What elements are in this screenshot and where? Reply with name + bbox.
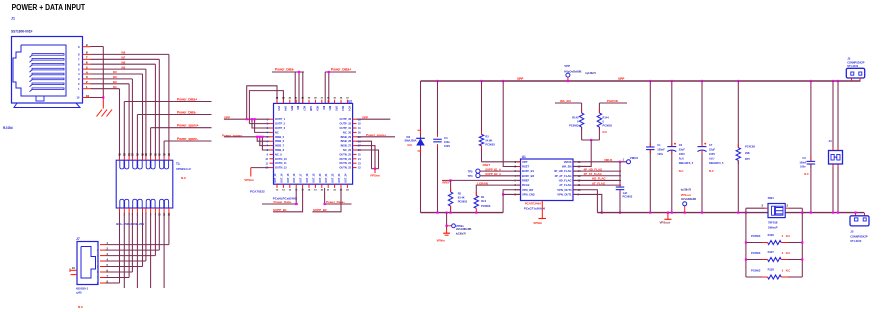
op-amp U1 part numbers — [524, 201, 546, 210]
svg-text:INSB_29: INSB_29 — [341, 135, 352, 139]
svg-text:OUT_15: OUT_15 — [287, 173, 290, 183]
wire WA_EN — [555, 102, 582, 104]
svg-text:100V: 100V — [444, 144, 450, 148]
switch SW1 body — [768, 204, 785, 218]
svg-text:NC_9: NC_9 — [275, 152, 282, 156]
capacitor C1 labels — [657, 143, 665, 156]
svg-text:NC3: NC3 — [341, 106, 344, 111]
svg-text:CONNPSDX2P: CONNPSDX2P — [850, 236, 868, 239]
wire J1 pin6 to T1 — [91, 64, 156, 156]
svg-text:NC_26: NC_26 — [343, 148, 352, 152]
svg-text:10: 10 — [76, 96, 80, 100]
wire net Power_Data- from T1 tap — [137, 115, 211, 157]
wire TP3 to U1 pin4 — [480, 175, 521, 177]
svg-text:PC4C08: PC4C08 — [745, 145, 755, 149]
net label PGOOD — [607, 99, 619, 103]
port label VPStm left — [244, 178, 254, 182]
svg-text:22uF: 22uF — [679, 147, 685, 151]
svg-text:POWER + DATA INPUT: POWER + DATA INPUT — [12, 3, 86, 12]
wire VPSout bottom rail — [597, 212, 864, 214]
port VPSout circle labels — [681, 190, 697, 201]
title POWER + DATA INPUT — [12, 3, 86, 12]
svg-text:PC0603: PC0603 — [485, 142, 495, 146]
svg-text:10: 10 — [86, 94, 90, 98]
connector J5 labels — [850, 229, 868, 243]
net label VPP at U2 left — [224, 116, 230, 120]
resistor R126 labels — [751, 233, 790, 238]
svg-text:IN0: IN0 — [322, 106, 325, 110]
svg-text:IN5: IN5 — [122, 66, 126, 69]
svg-text:100V: 100V — [709, 152, 715, 156]
wire bracket join U2 right — [372, 168, 379, 173]
svg-text:PC0603: PC0603 — [481, 204, 491, 208]
svg-text:VMUX: VMUX — [604, 158, 612, 162]
svg-text:VPNin: VPNin — [437, 239, 446, 243]
svg-text:cj45: cj45 — [76, 291, 82, 295]
svg-text:OUT_20: OUT_20 — [319, 173, 322, 183]
wire comb U2 pin3 — [251, 118, 270, 128]
wire J1 pin3 to T1 — [91, 79, 133, 157]
net label VMUX — [604, 158, 612, 162]
svg-text:100nF: 100nF — [799, 161, 807, 164]
connector J1 RJ45 jack body — [12, 37, 83, 108]
svg-text:N.C: N.C — [786, 234, 791, 238]
op-amp U1 refdes — [522, 155, 526, 159]
svg-text:N.C: N.C — [603, 130, 608, 134]
port VPP top center — [566, 73, 570, 82]
port VNEG below U1 — [539, 201, 547, 219]
wire WA_EN to U1 pin15 — [573, 140, 591, 166]
svg-text:IN7: IN7 — [122, 57, 126, 60]
svg-text:29K: 29K — [745, 151, 750, 155]
junction rail C3 bottom — [810, 212, 812, 214]
svg-text:PC0603: PC0603 — [751, 234, 761, 238]
svg-text:OUTN_22: OUTN_22 — [339, 166, 351, 170]
wire net Power_Data+ from T1 tap — [124, 102, 211, 157]
svg-text:VPNin: VPNin — [456, 224, 464, 228]
svg-text:OUT_16: OUT_16 — [293, 173, 296, 183]
svg-text:VPN_INT: VPN_INT — [522, 188, 534, 192]
junction rail C7 bottom — [701, 212, 703, 214]
svg-text:OUTP_2: OUTP_2 — [275, 122, 286, 126]
resistor R144 — [597, 113, 601, 127]
op-amp U2 body PCA9685 driver — [274, 103, 353, 184]
svg-text:AT_FLAG: AT_FLAG — [592, 181, 606, 185]
resistor R128 — [768, 275, 782, 279]
transformer T1 refdes — [176, 162, 180, 166]
svg-text:R75: R75 — [745, 157, 750, 161]
resistor R1 labels — [481, 195, 491, 208]
svg-text:VPSout: VPSout — [681, 193, 691, 197]
svg-text:BP1: BP1 — [328, 106, 331, 111]
transformer T1 windings — [120, 160, 169, 208]
net label VPP U2 right — [362, 115, 368, 119]
svg-text:NC7: NC7 — [303, 106, 306, 111]
junction rail C1 bottom — [649, 212, 651, 214]
wire J1 pin7 to T1 — [91, 59, 160, 156]
svg-text:IN6: IN6 — [122, 61, 126, 64]
diode D3 labels — [405, 135, 417, 147]
connector J4 refdes — [828, 139, 832, 143]
svg-text:C3: C3 — [802, 156, 806, 160]
svg-text:WA_EN: WA_EN — [560, 99, 571, 103]
svg-text:OUTP_3: OUTP_3 — [275, 126, 286, 130]
net label 4P_HD_FLAG — [584, 167, 604, 171]
svg-text:PC0603: PC0603 — [751, 269, 761, 273]
svg-text:PC0603: PC0603 — [569, 123, 579, 127]
connector J3 body — [846, 68, 864, 78]
svg-text:1uF: 1uF — [623, 191, 628, 195]
svg-text:VPStm: VPStm — [370, 174, 380, 178]
wire net AT_FLAG — [573, 184, 621, 186]
svg-text:VPSout: VPSout — [660, 220, 670, 224]
test point TP2 — [468, 169, 480, 173]
port label VPNin below U1 — [533, 221, 542, 225]
svg-text:C4: C4 — [444, 136, 448, 140]
wire net Power_spare+ from T1 tap — [151, 128, 212, 157]
svg-text:IN3: IN3 — [113, 76, 117, 79]
wire U1 pin8 down — [503, 193, 520, 195]
transformer T1 pin stubs — [120, 157, 169, 213]
resistor R3 branch — [481, 81, 483, 162]
wire R3 to U1 pin1 — [482, 161, 521, 163]
capacitor C2 branch — [619, 162, 621, 213]
op-amp U2 top pins — [276, 97, 351, 112]
connector J7 pin 10 — [70, 267, 77, 274]
svg-text:PC0603: PC0603 — [603, 123, 613, 127]
svg-text:HVxGNDxDB: HVxGNDxDB — [456, 228, 472, 231]
svg-text:WA_EN: WA_EN — [562, 165, 572, 169]
svg-text:SUPP_B2_A: SUPP_B2_A — [485, 172, 501, 176]
svg-text:VPP: VPP — [517, 77, 524, 81]
svg-text:RJ45d: RJ45d — [3, 126, 13, 130]
port VPP label — [564, 64, 570, 68]
port VPP HV-GND note — [564, 70, 596, 75]
svg-text:Power_Data-: Power_Data- — [274, 200, 292, 204]
wire T1 to J7 pin6 — [106, 213, 133, 273]
junction VPNin circle tap — [446, 225, 448, 227]
wire J1 pin2 to T1 — [91, 84, 130, 157]
wire pin9 down to ground node — [91, 47, 104, 98]
port VPNin circle — [447, 224, 456, 228]
svg-text:SUPP_B2: SUPP_B2 — [313, 208, 327, 212]
junction rail VPNin port — [446, 212, 448, 214]
svg-text:N.C: N.C — [181, 176, 187, 180]
svg-text:ALU: ALU — [709, 156, 714, 160]
net label Power_Data+ at U2 top — [331, 68, 351, 72]
junction rail U1 feed — [502, 80, 504, 82]
svg-text:VPP: VPP — [522, 160, 528, 164]
op-amp U2 part number center — [273, 197, 298, 201]
svg-text:OUTN_23: OUTN_23 — [339, 161, 351, 165]
svg-text:ly138x70: ly138x70 — [456, 232, 467, 235]
junction rail R75 bottom — [737, 212, 739, 214]
svg-text:J1: J1 — [11, 17, 15, 21]
op-amp U1 left pins — [515, 160, 535, 197]
svg-text:ST1-0100: ST1-0100 — [847, 65, 859, 68]
wire net RREF to U1 pin5 — [442, 179, 521, 181]
resistor R2 branch — [450, 180, 452, 212]
resistor R144 branch — [598, 103, 600, 140]
connector J3 labels — [847, 56, 865, 68]
junction rail C2 — [619, 212, 621, 214]
net label RSET — [483, 163, 491, 167]
op-amp U2 refdes — [348, 99, 352, 103]
wire U1 pin7 down — [502, 190, 521, 213]
wire J1 pin4 to T1 — [91, 74, 143, 157]
svg-text:PCA7E249A: PCA7E249A — [525, 201, 542, 205]
svg-text:INSB_28: INSB_28 — [341, 139, 352, 143]
svg-text:VMUX: VMUX — [630, 156, 638, 160]
wire J1 pin8 to T1 — [91, 54, 169, 156]
svg-text:30.9: 30.9 — [481, 199, 487, 203]
svg-text:OUT_22: OUT_22 — [332, 173, 335, 183]
svg-text:VCC: VCC — [277, 106, 280, 111]
op-amp U2 left pins — [265, 117, 287, 170]
svg-text:T1: T1 — [176, 162, 180, 166]
svg-text:by138x70: by138x70 — [681, 190, 692, 192]
svg-text:Power_spare+: Power_spare+ — [177, 124, 199, 128]
svg-text:HD_FLAG: HD_FLAG — [592, 177, 606, 181]
svg-text:OUT_13: OUT_13 — [274, 173, 277, 183]
svg-text:R2: R2 — [458, 191, 462, 195]
svg-text:100nF: 100nF — [657, 147, 665, 151]
net label SUPP_B2_A — [485, 172, 501, 176]
wire comb U2 pin8 — [261, 136, 269, 150]
capacitor C3 labels — [799, 156, 809, 176]
svg-text:VP6294 LF: VP6294 LF — [176, 167, 191, 171]
svg-text:N.C: N.C — [786, 269, 791, 273]
transformer T1 value VP6294 LF — [176, 167, 191, 171]
svg-text:OUTP_32: OUTP_32 — [340, 122, 352, 126]
svg-text:R3: R3 — [485, 134, 489, 138]
net label Power_Data- at U2 top — [275, 68, 294, 72]
op-amp U2 right pins — [339, 117, 361, 170]
resistor R3 — [479, 134, 483, 145]
svg-text:IN2: IN2 — [113, 81, 117, 84]
svg-text:OUTN_25: OUTN_25 — [339, 152, 351, 156]
svg-text:BUFF_B1: BUFF_B1 — [522, 169, 535, 173]
svg-text:R143: R143 — [572, 115, 579, 119]
svg-text:VPN_OUT0: VPN_OUT0 — [557, 188, 572, 192]
capacitor C7 branch — [701, 81, 703, 213]
port VPNin circle labels — [456, 224, 472, 236]
wire R143 R144 join — [582, 139, 600, 141]
wire T1 center taps below — [124, 213, 164, 289]
junction rail ladder right — [801, 212, 803, 214]
wire VPNin port drop — [446, 213, 448, 234]
svg-text:IN1: IN1 — [113, 86, 117, 89]
svg-text:OUTN_11: OUTN_11 — [275, 161, 287, 165]
wire D3 branch — [420, 81, 422, 213]
wire bracket U2 pin26 — [357, 150, 379, 169]
wire bracket U2 pin28 — [357, 141, 372, 169]
svg-text:PC0603: PC0603 — [458, 200, 468, 204]
svg-text:N.C: N.C — [408, 143, 413, 147]
transformer T1 pin numbers — [118, 153, 171, 216]
wire T1 to J7 pin3 — [106, 213, 156, 256]
svg-text:C6: C6 — [679, 143, 683, 147]
junction U2 left loop1 — [246, 118, 248, 120]
connector J5 pins — [854, 212, 864, 216]
svg-text:DBH12F3_5: DBH12F3_5 — [679, 161, 694, 165]
wire J1 pin5 to T1 — [91, 69, 146, 156]
port VPSout circle — [683, 202, 687, 214]
transformer T1 body — [116, 160, 173, 208]
wire T1 to J7 pin1 — [106, 213, 169, 245]
svg-text:4P_HD_FLAG: 4P_HD_FLAG — [584, 167, 604, 171]
svg-text:N.C: N.C — [804, 172, 809, 176]
svg-text:SS71800-001F: SS71800-001F — [11, 30, 32, 34]
capacitor C4 — [433, 139, 442, 142]
svg-text:OUT_19: OUT_19 — [312, 173, 315, 183]
svg-text:NC_30: NC_30 — [343, 130, 352, 134]
svg-text:BEL-45Mx100B-20V: BEL-45Mx100B-20V — [116, 222, 144, 226]
wire net 4P_AT_FLAG — [573, 175, 621, 177]
junction rail J4 top — [832, 80, 839, 82]
net label RREF — [442, 181, 450, 185]
junction ladder row R126 — [745, 241, 804, 243]
svg-text:OP2: OP2 — [335, 106, 338, 111]
svg-text:HVxGNDx0B: HVxGNDx0B — [681, 198, 696, 201]
junction rail R3 — [480, 80, 482, 82]
svg-text:N.C: N.C — [786, 251, 791, 255]
resistor R144 labels — [603, 115, 613, 134]
junction rail C7 top — [701, 80, 703, 82]
port label VPStm right — [370, 174, 380, 178]
op-amp U1 right pins — [554, 160, 581, 197]
resistor R128 row — [746, 276, 802, 278]
svg-text:PC0603: PC0603 — [623, 195, 633, 199]
connector J1 refdes — [11, 17, 15, 21]
svg-text:VD9: VD9 — [315, 106, 318, 111]
wire SW1 left — [746, 208, 765, 212]
wire net Power_Data+ to U2 top — [325, 72, 356, 103]
connector J1 pins 9-1 — [78, 43, 91, 91]
wire VMUX from U1 pin16 — [573, 161, 627, 163]
connector J1 part number SS71800-001F — [11, 30, 32, 34]
wire T1 to J7 pin8 — [106, 213, 120, 284]
wire net SUPP_B2 — [312, 188, 341, 212]
svg-text:OUTN_24: OUTN_24 — [339, 157, 351, 161]
svg-text:VPStm: VPStm — [244, 178, 254, 182]
svg-text:by138x70: by138x70 — [586, 73, 597, 75]
switch SW1 labels — [768, 220, 778, 229]
net label AT_FLAG — [592, 181, 606, 185]
wire comb U2 pin4 — [254, 118, 270, 132]
junction rail C6 top — [671, 80, 673, 82]
transformer T1 N.C flag — [181, 176, 187, 180]
junction ladder row R127 — [745, 258, 804, 260]
net label SUPP_B2 — [313, 208, 327, 212]
wire net Power_spare- from T1 tap — [164, 141, 211, 157]
svg-text:U1: U1 — [522, 155, 526, 159]
svg-text:U2: U2 — [348, 99, 352, 103]
svg-text:4P_AT_FLAG: 4P_AT_FLAG — [555, 174, 572, 178]
svg-text:100v: 100v — [657, 152, 663, 156]
capacitor C2 — [616, 187, 625, 190]
svg-text:INSB_6: INSB_6 — [275, 139, 285, 143]
svg-text:N.C: N.C — [679, 169, 684, 173]
wire J4 feeds — [833, 81, 838, 213]
wire comb U2 pin7 — [259, 136, 270, 146]
junction rail C4 bottom — [436, 212, 438, 214]
svg-text:IN4: IN4 — [113, 71, 117, 74]
wire rail to U1 pin2 — [503, 81, 520, 167]
svg-text:R127: R127 — [768, 250, 775, 254]
svg-text:VPN_CNS: VPN_CNS — [522, 193, 535, 197]
wire net SUPP_B1 — [273, 188, 303, 212]
wire ladder right rail — [801, 213, 803, 277]
wire J1 pin1 to T1 — [91, 89, 120, 157]
svg-text:J3: J3 — [847, 56, 851, 60]
port label VPSout T-bar — [660, 220, 670, 224]
connector J7 N.C flag — [78, 305, 84, 309]
wire T1 to J7 pin4 — [106, 213, 146, 262]
port VPNin T-bar — [443, 233, 450, 235]
svg-text:SWxxP: SWxxP — [768, 226, 778, 230]
connector J7 RJ45 body — [77, 242, 98, 285]
svg-text:OUTN_12: OUTN_12 — [275, 166, 287, 170]
svg-text:R126: R126 — [768, 233, 775, 237]
connector J1 contact bars — [30, 54, 65, 92]
svg-text:TP2: TP2 — [468, 169, 473, 173]
svg-text:OUT_23: OUT_23 — [338, 173, 341, 183]
svg-text:OUT_18: OUT_18 — [306, 173, 309, 183]
svg-text:TP3: TP3 — [468, 174, 473, 178]
net label Power_spare- at U2 bottom — [274, 200, 292, 204]
svg-text:RSET: RSET — [522, 165, 530, 169]
junction ground node — [102, 96, 104, 98]
capacitor C2 labels — [623, 191, 633, 199]
wire net DRAIN to U1 pin6 — [476, 185, 520, 196]
resistor R143 — [579, 113, 583, 127]
svg-text:ALU: ALU — [679, 156, 684, 160]
test point TP3 — [468, 173, 480, 178]
resistor R75 branch — [737, 81, 739, 213]
switch SW1 pins — [762, 204, 790, 209]
resistor R3 labels — [485, 134, 495, 146]
svg-text:VC4: VC4 — [347, 106, 350, 111]
capacitor C3 branch — [810, 81, 812, 213]
net label 4P_AT_FLAG — [584, 172, 603, 176]
resistor R1 — [474, 192, 478, 212]
svg-text:160v: 160v — [800, 166, 806, 169]
svg-text:OUT_17: OUT_17 — [300, 173, 303, 183]
connector J7 pins 1-8 — [97, 241, 108, 285]
svg-text:VPN_OUT1: VPN_OUT1 — [557, 193, 572, 197]
svg-text:OUTN_10: OUTN_10 — [275, 157, 287, 161]
resistor R127 labels — [751, 250, 790, 255]
net label HD_FLAG — [592, 177, 606, 181]
resistor R2 labels — [458, 191, 468, 203]
svg-text:100n: 100n — [444, 140, 450, 144]
wire VPP top rail — [421, 80, 861, 82]
junction rail C6 bottom — [671, 212, 673, 214]
resistor R2 — [448, 192, 452, 206]
svg-text:INSB_7: INSB_7 — [275, 144, 285, 148]
svg-text:Power_spare-: Power_spare- — [177, 137, 198, 141]
svg-text:HD_FLAG: HD_FLAG — [559, 179, 572, 183]
wire net VPP at U2 right — [357, 118, 391, 120]
svg-text:R144: R144 — [603, 115, 610, 119]
svg-text:Power_spare+: Power_spare+ — [366, 133, 387, 137]
resistor R75 — [736, 148, 740, 161]
svg-text:IN8: IN8 — [122, 52, 126, 55]
svg-text:Power_Data+: Power_Data+ — [331, 68, 351, 72]
svg-text:DBH12F3_5: DBH12F3_5 — [709, 161, 724, 165]
svg-text:PC0603: PC0603 — [751, 251, 761, 255]
